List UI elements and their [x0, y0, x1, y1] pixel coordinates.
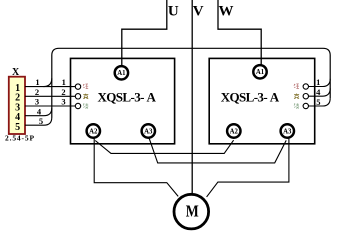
- colour label yellow (huang) left: [83, 94, 88, 99]
- svg-text:A1: A1: [117, 70, 126, 77]
- svg-text:2.54-5P: 2.54-5P: [5, 134, 35, 143]
- op box A1 terminal (left): [115, 66, 128, 79]
- right terminal circle row1: [303, 84, 308, 89]
- svg-text:3: 3: [61, 97, 65, 107]
- svg-text:X: X: [12, 67, 20, 78]
- colour label green (lv) right: [294, 103, 299, 108]
- svg-text:4: 4: [316, 87, 321, 97]
- right wire 4 from terminal arcing into bus: [309, 88, 331, 96]
- wire left A2 stem down to motor: [94, 138, 178, 197]
- right wire 1 from terminal arcing into bus: [309, 79, 331, 87]
- svg-text:A3: A3: [144, 128, 153, 135]
- svg-text:A1: A1: [256, 69, 265, 76]
- svg-text:5: 5: [15, 122, 20, 133]
- svg-text:XQSL-3- A: XQSL-3- A: [98, 90, 157, 105]
- connector X body: [9, 77, 25, 134]
- wire right A3 stem down to motor: [207, 138, 289, 197]
- cable bus rounded path (wires 1,4,5 left to right): [52, 48, 330, 117]
- left terminal circle 3: [75, 103, 80, 108]
- wire V vertical to motor: [191, 0, 193, 193]
- colour label yellow (huang) right: [294, 94, 299, 99]
- wire 1 branch arc into bus: [43, 78, 51, 86]
- colour label red (hong) left: [83, 84, 88, 89]
- svg-text:A3: A3: [283, 128, 292, 135]
- svg-text:1: 1: [35, 77, 39, 87]
- right soft starter box U2: [209, 58, 315, 143]
- svg-text:XQSL-3- A: XQSL-3- A: [221, 90, 280, 105]
- right terminal circle row3: [303, 103, 308, 108]
- svg-text:A2: A2: [89, 128, 98, 135]
- right terminal circle row2: [303, 94, 308, 99]
- svg-text:3: 3: [35, 97, 39, 107]
- svg-text:1: 1: [62, 77, 66, 87]
- svg-text:2: 2: [35, 87, 39, 97]
- wire 4 from pin4 arcing into bus: [25, 108, 52, 116]
- wire U vertical and bend to left A1: [122, 0, 167, 65]
- colour label red (hong) right: [294, 84, 299, 89]
- A2 terminal (left): [87, 124, 100, 137]
- colour label green (lv) left: [83, 103, 88, 108]
- left terminal circle 1: [75, 84, 80, 89]
- right wire 5 from terminal arcing into bus: [309, 98, 331, 106]
- wire 1 from pin1 to left terminal 1: [25, 86, 75, 88]
- left terminal circle 2: [75, 94, 80, 99]
- svg-text:A2: A2: [230, 128, 239, 135]
- motor M: [174, 194, 209, 229]
- wire left A2 branch to right A2: [95, 140, 233, 153]
- svg-text:1: 1: [316, 77, 320, 87]
- A3 terminal (left): [142, 124, 155, 137]
- wire 3 from pin3 to left terminal 3: [25, 105, 75, 107]
- wire left A3 to right A3: [149, 138, 286, 163]
- svg-text:5: 5: [316, 97, 320, 107]
- wire W vertical and bend to right A1: [218, 0, 261, 65]
- svg-text:V: V: [193, 4, 204, 20]
- A1 terminal (right): [253, 65, 266, 78]
- svg-text:U: U: [168, 4, 179, 20]
- A3 terminal (right): [281, 124, 294, 137]
- svg-text:W: W: [219, 4, 234, 20]
- svg-text:M: M: [186, 202, 199, 221]
- left soft starter box U1: [71, 58, 175, 143]
- wire 2 from pin2 to left terminal 2: [25, 95, 75, 97]
- svg-text:5: 5: [39, 116, 43, 126]
- svg-text:2: 2: [61, 87, 65, 97]
- wire 5 from pin5 arcing into bus: [25, 117, 52, 125]
- A2 terminal (right): [227, 124, 240, 137]
